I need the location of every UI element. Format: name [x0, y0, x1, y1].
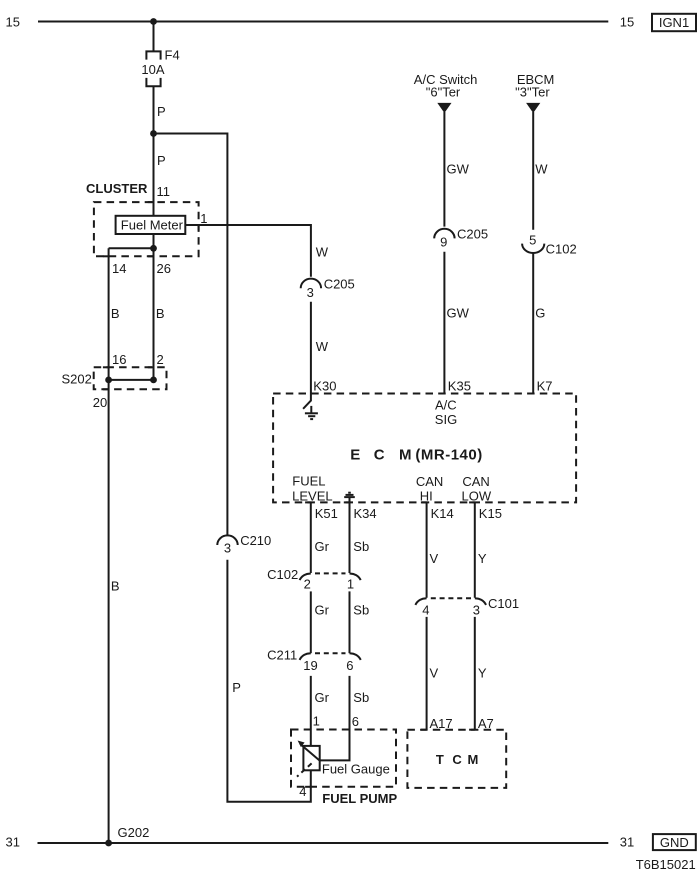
- svg-text:Y: Y: [478, 551, 487, 566]
- svg-text:4: 4: [422, 602, 429, 617]
- svg-text:K51: K51: [315, 506, 338, 521]
- pin K7: [528, 393, 534, 395]
- ECM internal ground at K34: [344, 493, 355, 503]
- ECM pin label A/C SIG: [435, 397, 457, 427]
- ECM title: [350, 446, 482, 463]
- pin 4 fuel pump: [305, 786, 311, 788]
- svg-text:K7: K7: [537, 379, 553, 394]
- svg-text:K15: K15: [479, 506, 502, 521]
- junction below fuel meter: [150, 245, 157, 252]
- ECM pin label FUEL LEVEL: [292, 474, 332, 504]
- ground G202 junction: [105, 840, 112, 847]
- svg-text:B: B: [156, 306, 165, 321]
- pin K14: [421, 501, 427, 503]
- svg-text:26: 26: [157, 261, 171, 276]
- svg-text:B: B: [111, 578, 120, 593]
- svg-text:F4: F4: [165, 48, 180, 63]
- svg-text:15: 15: [620, 15, 634, 30]
- svg-text:31: 31: [6, 834, 20, 849]
- connector C102 pin 5: [522, 232, 577, 256]
- wire Sb C102 to C211: [349, 591, 351, 653]
- svg-text:2: 2: [157, 352, 164, 367]
- wire Y K15 to C101: [474, 502, 476, 597]
- TCM box: [407, 730, 506, 788]
- svg-text:V: V: [430, 665, 439, 680]
- splice S202 box: [94, 367, 167, 389]
- svg-text:IGN1: IGN1: [659, 15, 689, 30]
- svg-text:CAN: CAN: [462, 474, 489, 489]
- svg-text:B: B: [111, 306, 120, 321]
- splice wire: [109, 379, 154, 381]
- pin 26: [148, 255, 154, 257]
- wire Gr K51 to C102: [310, 502, 312, 573]
- svg-text:3: 3: [473, 602, 480, 617]
- svg-text:LEVEL: LEVEL: [292, 488, 332, 503]
- svg-text:CLUSTER: CLUSTER: [86, 181, 148, 196]
- svg-text:C102: C102: [546, 242, 577, 257]
- svg-text:HI: HI: [420, 488, 433, 503]
- ECM box: [273, 394, 576, 503]
- svg-text:LOW: LOW: [461, 488, 491, 503]
- wire V C101 to TCM: [426, 617, 428, 730]
- svg-text:C: C: [452, 752, 462, 767]
- A/C Switch source: [414, 72, 478, 113]
- svg-text:P: P: [157, 153, 166, 168]
- svg-text:1: 1: [347, 577, 354, 592]
- pin K34: [344, 501, 350, 503]
- svg-text:Fuel Gauge: Fuel Gauge: [322, 762, 390, 777]
- svg-text:Sb: Sb: [353, 690, 369, 705]
- svg-text:4: 4: [299, 784, 306, 799]
- svg-text:C205: C205: [457, 226, 488, 241]
- wire P to fuel pump: [227, 560, 310, 802]
- svg-text:GW: GW: [447, 306, 470, 321]
- wire fuel meter to C205: [185, 225, 311, 277]
- TCM label: [436, 752, 478, 767]
- wire bus 15: [38, 21, 608, 23]
- svg-text:Gr: Gr: [315, 539, 330, 554]
- wire Gr C102 to C211: [310, 591, 312, 653]
- wire fuel meter to junction: [153, 234, 155, 248]
- wire W to ECM K30: [310, 302, 312, 401]
- IGN1 power box: [652, 14, 696, 31]
- svg-text:C211: C211: [267, 648, 297, 663]
- svg-text:6: 6: [352, 714, 359, 729]
- splice junction right: [150, 377, 157, 384]
- pin 11: [148, 201, 154, 203]
- svg-text:M: M: [468, 752, 479, 767]
- pin 6 fuel pump: [344, 729, 350, 731]
- wire Gr C211 to fuel pump: [310, 676, 312, 746]
- connector C205 pin 9: [434, 226, 488, 249]
- pin 2: [148, 366, 154, 368]
- wire P fuse to cluster: [153, 86, 155, 216]
- wire B left to S202: [108, 248, 110, 380]
- FUEL PUMP box: [291, 730, 396, 787]
- svg-text:"6"Ter: "6"Ter: [426, 85, 461, 100]
- svg-text:FUEL: FUEL: [292, 474, 325, 489]
- wire GW from A/C switch: [443, 112, 445, 227]
- svg-text:11: 11: [157, 184, 171, 199]
- pin 14: [103, 255, 109, 257]
- svg-text:15: 15: [6, 15, 20, 30]
- svg-text:C: C: [374, 446, 385, 463]
- wire branch to fuel pump: [154, 134, 228, 535]
- pin A7: [469, 729, 475, 731]
- svg-text:K34: K34: [354, 506, 377, 521]
- wire V K14 to C101: [426, 502, 428, 597]
- svg-text:P: P: [232, 680, 241, 695]
- CLUSTER box: [94, 202, 199, 256]
- pin K51: [305, 501, 311, 503]
- svg-text:A17: A17: [430, 716, 453, 731]
- svg-text:C102: C102: [267, 567, 298, 582]
- svg-text:GND: GND: [660, 835, 689, 850]
- svg-text:(MR-140): (MR-140): [415, 446, 482, 463]
- svg-text:P: P: [157, 104, 166, 119]
- fuse F4: [146, 51, 160, 59]
- wire G to ECM K7: [532, 253, 534, 394]
- connector C210 pin 3: [217, 533, 271, 555]
- pin 20: [103, 388, 109, 390]
- ECM pin label CAN LOW: [461, 474, 491, 504]
- svg-text:W: W: [535, 162, 548, 177]
- svg-text:E: E: [350, 446, 360, 463]
- svg-text:W: W: [316, 244, 329, 259]
- svg-text:G202: G202: [118, 825, 150, 840]
- svg-text:Sb: Sb: [353, 539, 369, 554]
- pin A17: [421, 729, 427, 731]
- svg-text:A7: A7: [478, 716, 494, 731]
- wire B to ground bus: [108, 380, 110, 843]
- svg-text:K14: K14: [431, 506, 454, 521]
- svg-text:SIG: SIG: [435, 412, 457, 427]
- svg-text:C101: C101: [488, 596, 519, 611]
- svg-text:9: 9: [440, 235, 447, 250]
- svg-text:T: T: [436, 752, 444, 767]
- fuse F4 lower bracket: [146, 78, 160, 86]
- svg-text:10A: 10A: [141, 62, 164, 77]
- wire B right to S202: [153, 248, 155, 380]
- pin 16: [103, 366, 109, 368]
- connector C101 row: [415, 596, 519, 617]
- svg-text:6: 6: [346, 658, 353, 673]
- svg-text:31: 31: [620, 834, 634, 849]
- svg-text:G: G: [535, 306, 545, 321]
- ECM internal ground at K30: [303, 401, 318, 420]
- wire Sb C211 to fuel gauge: [320, 676, 350, 761]
- svg-text:C210: C210: [240, 533, 271, 548]
- svg-text:Y: Y: [478, 665, 487, 680]
- svg-text:A/C: A/C: [435, 397, 457, 412]
- svg-text:V: V: [430, 551, 439, 566]
- pin K15: [469, 501, 475, 503]
- pin 1: [198, 225, 200, 231]
- svg-text:Sb: Sb: [353, 602, 369, 617]
- svg-text:2: 2: [304, 577, 311, 592]
- svg-text:GW: GW: [447, 162, 470, 177]
- svg-text:M: M: [399, 446, 412, 463]
- svg-text:S202: S202: [62, 372, 92, 387]
- pin K35: [439, 393, 445, 395]
- EBCM source: [515, 72, 554, 113]
- splice junction left: [105, 377, 112, 384]
- svg-text:Gr: Gr: [315, 690, 330, 705]
- svg-text:FUEL PUMP: FUEL PUMP: [322, 791, 397, 806]
- connector C102 row: [267, 567, 361, 592]
- svg-text:16: 16: [112, 352, 126, 367]
- wire to fuse: [153, 22, 155, 52]
- Fuel Meter box: [116, 216, 186, 234]
- svg-text:K30: K30: [313, 378, 336, 393]
- wire GW to ECM K35: [443, 252, 445, 394]
- svg-text:T6B15021: T6B15021: [636, 857, 696, 872]
- svg-text:5: 5: [529, 232, 536, 247]
- svg-text:W: W: [316, 339, 329, 354]
- svg-text:1: 1: [313, 714, 320, 729]
- svg-text:3: 3: [307, 285, 314, 300]
- svg-text:3: 3: [224, 540, 231, 555]
- svg-text:Gr: Gr: [315, 602, 330, 617]
- svg-text:K35: K35: [448, 379, 471, 394]
- wire Y C101 to TCM: [474, 617, 476, 730]
- connector C205 pin 3: [301, 276, 355, 300]
- svg-text:20: 20: [93, 395, 107, 410]
- svg-text:C205: C205: [324, 276, 355, 291]
- svg-text:"3"Ter: "3"Ter: [515, 85, 550, 100]
- fuel gauge sender (variable resistor): [297, 741, 390, 777]
- pin 1 fuel pump: [305, 729, 311, 731]
- wire jog left: [109, 247, 154, 249]
- svg-text:CAN: CAN: [416, 474, 443, 489]
- connector C211 row: [267, 648, 361, 673]
- GND box: [653, 834, 696, 850]
- svg-text:14: 14: [112, 261, 126, 276]
- wire bus 31: [38, 842, 609, 844]
- svg-text:19: 19: [303, 658, 317, 673]
- wire W from EBCM: [532, 112, 534, 230]
- junction fuse tap: [150, 18, 157, 25]
- svg-text:1: 1: [200, 211, 207, 226]
- ECM pin label CAN HI: [416, 474, 443, 504]
- junction branch: [150, 130, 157, 137]
- wire Sb K34 to C102: [349, 502, 351, 573]
- svg-text:Fuel Meter: Fuel Meter: [121, 218, 184, 233]
